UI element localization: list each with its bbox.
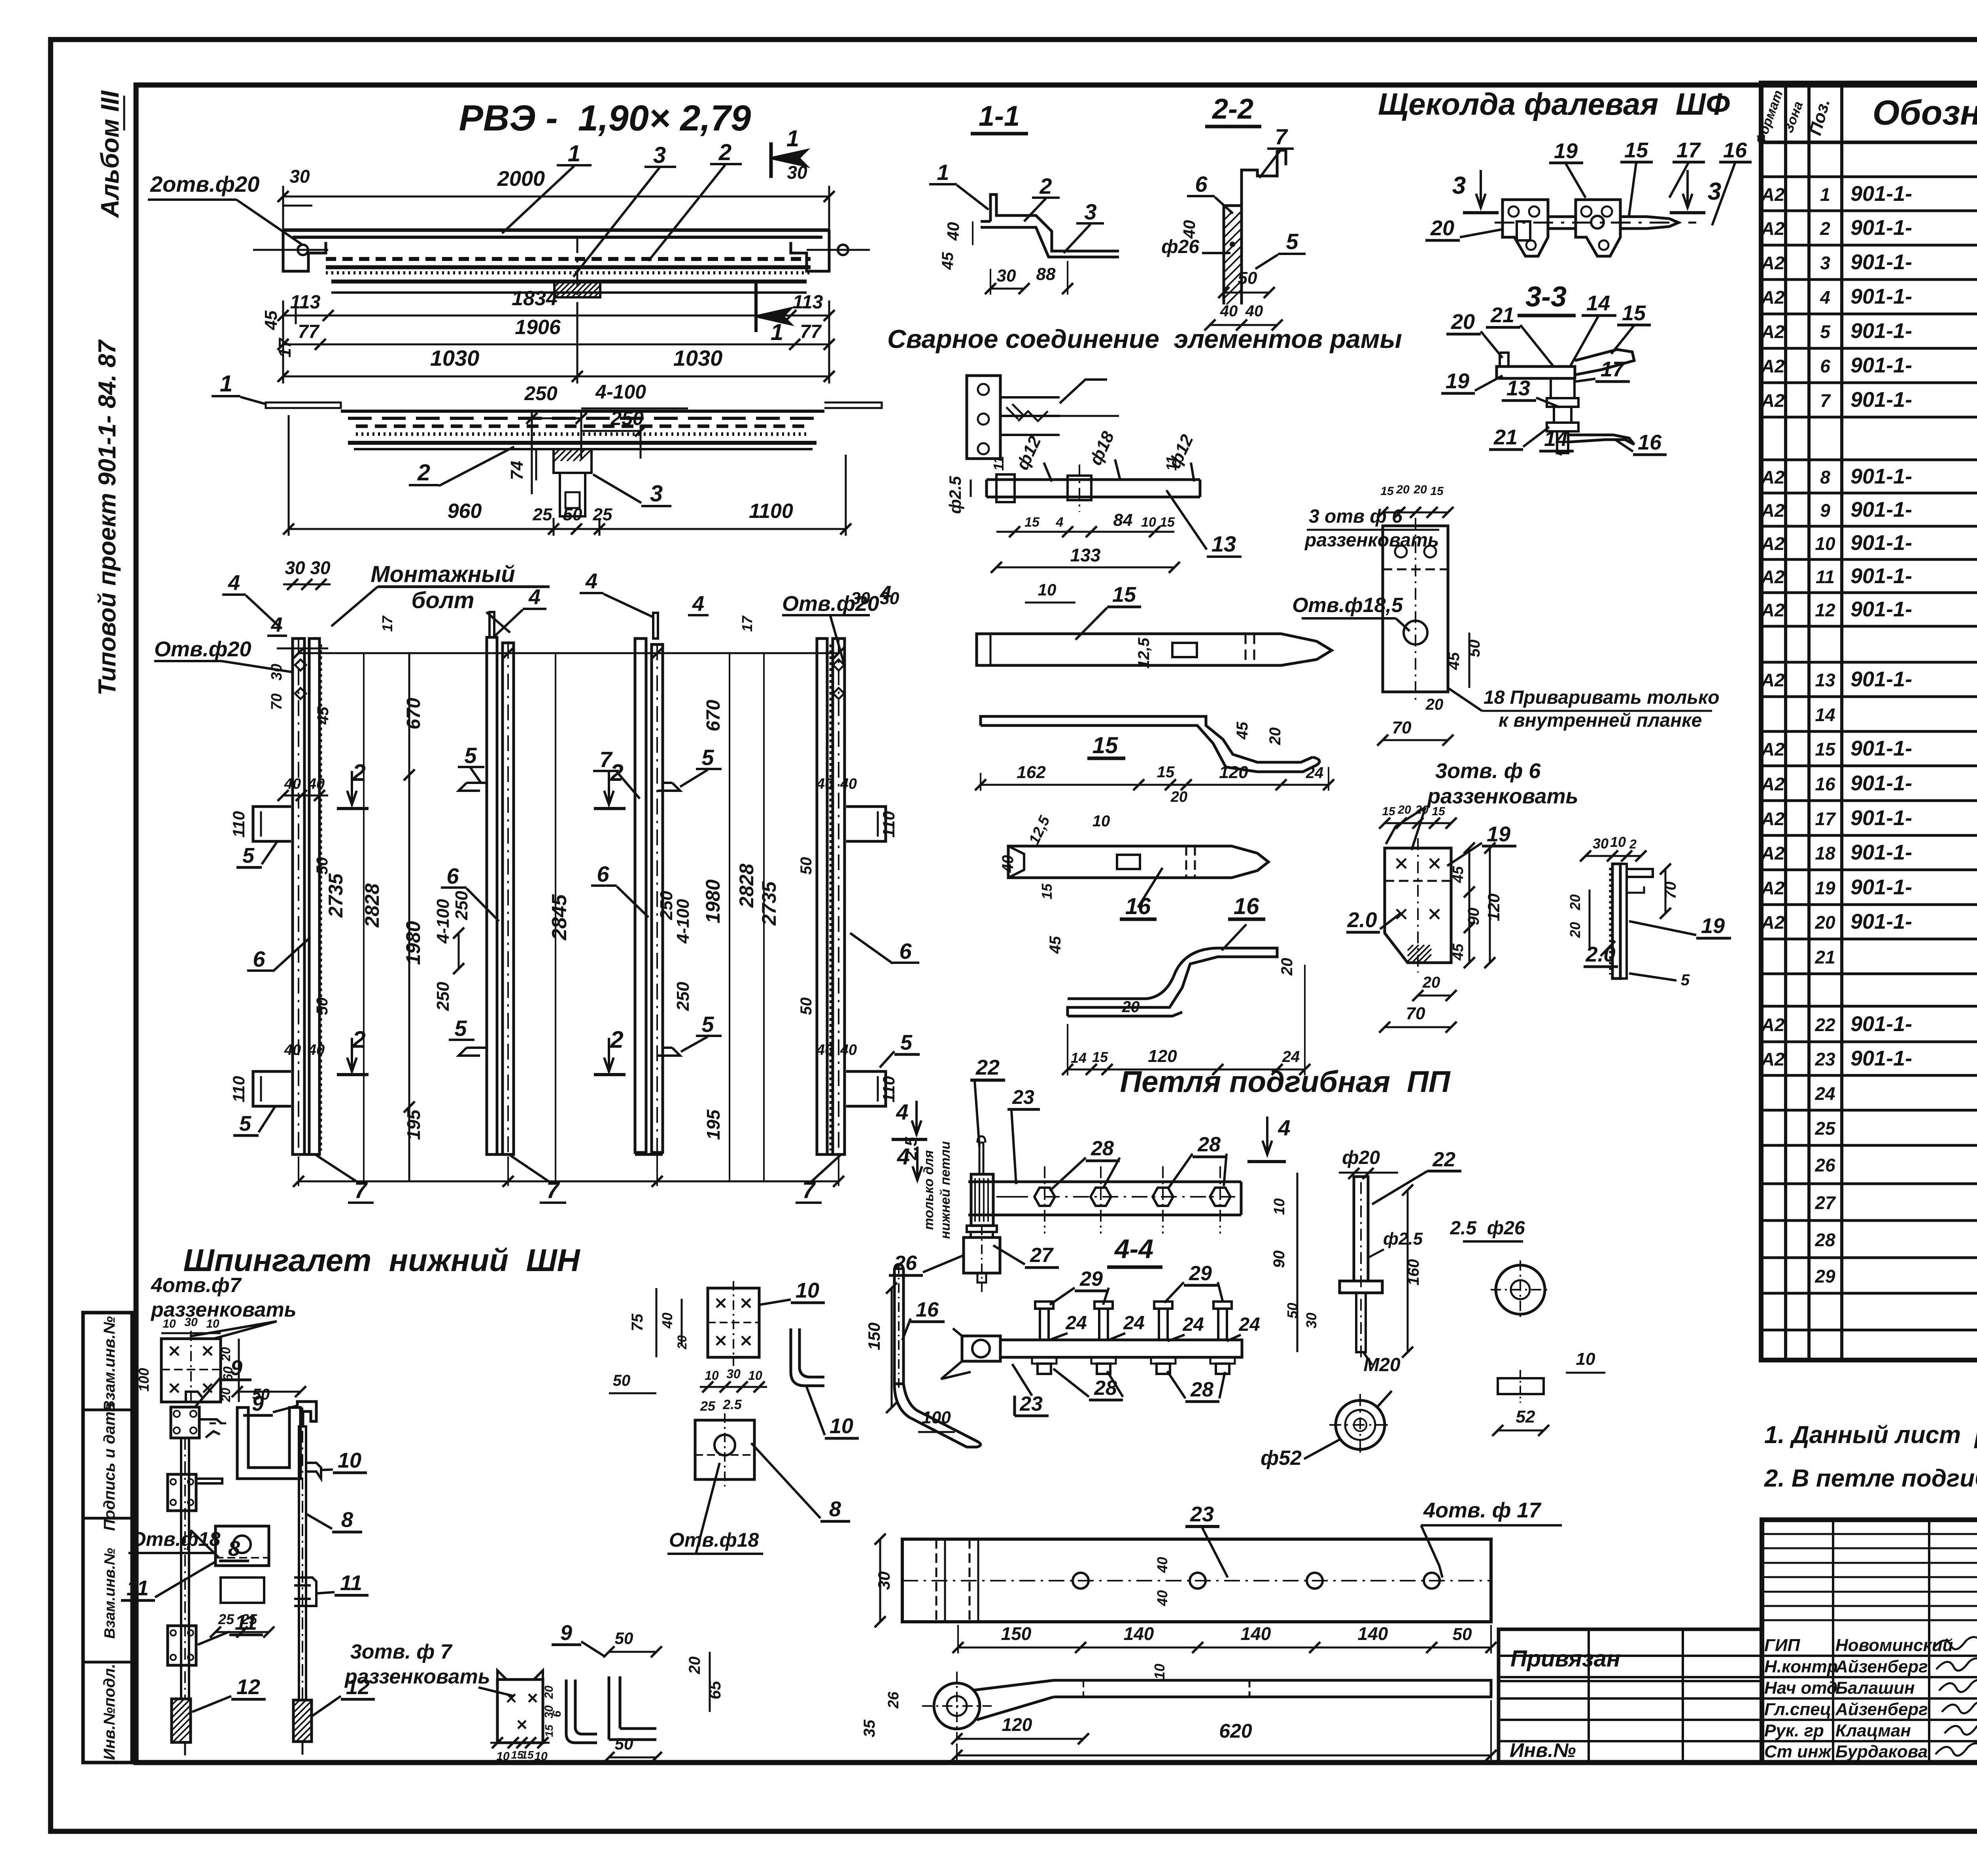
svg-text:25: 25	[241, 1611, 257, 1627]
svg-text:30 30: 30 30	[851, 589, 900, 608]
svg-text:45: 45	[939, 252, 956, 270]
svg-text:4отв.ф7: 4отв.ф7	[151, 1274, 242, 1297]
frame column D top diamonds	[833, 659, 844, 671]
svg-text:24: 24	[1238, 1314, 1260, 1335]
part 15 top view body	[977, 634, 1332, 665]
svg-text:А2: А2	[1761, 533, 1785, 554]
svg-text:1030: 1030	[430, 346, 480, 370]
svg-text:2-2: 2-2	[1212, 93, 1253, 125]
svg-text:40: 40	[999, 855, 1017, 873]
svg-text:1: 1	[568, 141, 580, 166]
latch slide bolt	[1548, 217, 1678, 229]
svg-text:28: 28	[1814, 1230, 1835, 1250]
svg-text:901-1-: 901-1-	[1850, 319, 1912, 343]
svg-text:16: 16	[1234, 894, 1259, 919]
svg-text:30: 30	[184, 1316, 198, 1329]
title block frame	[1762, 1520, 1977, 1763]
svg-text:10: 10	[1576, 1349, 1595, 1369]
plate 23 side view strip	[1054, 1680, 1491, 1697]
svg-text:25: 25	[218, 1611, 234, 1627]
svg-text:8: 8	[341, 1508, 353, 1532]
svg-text:75: 75	[629, 1313, 646, 1331]
svg-text:20: 20	[1430, 216, 1454, 240]
svg-text:ф2.5: ф2.5	[946, 476, 964, 514]
svg-text:20: 20	[1451, 310, 1475, 334]
svg-text:Отв.ф18: Отв.ф18	[669, 1529, 759, 1551]
svg-text:2.0: 2.0	[1347, 908, 1377, 932]
svg-text:5: 5	[701, 1012, 714, 1037]
beam view 2 right tail	[824, 402, 882, 408]
svg-text:20: 20	[1415, 803, 1429, 816]
plate 23 left end dashed lines	[936, 1539, 937, 1622]
svg-text:А2: А2	[1761, 500, 1785, 521]
svg-text:16: 16	[1638, 431, 1662, 454]
bolt 2	[1099, 1309, 1108, 1340]
svg-text:26: 26	[885, 1691, 902, 1709]
svg-text:29: 29	[1189, 1262, 1212, 1285]
washer side rect	[1498, 1378, 1544, 1394]
svg-text:4: 4	[585, 569, 597, 593]
frame right bracket upper	[846, 807, 886, 841]
svg-text:М20: М20	[1363, 1355, 1401, 1375]
svg-text:901-1-: 901-1-	[1850, 875, 1912, 899]
svg-text:28: 28	[1190, 1378, 1213, 1401]
weld detail leader arrow	[1060, 380, 1107, 403]
svg-text:6: 6	[253, 947, 265, 971]
svg-text:901-1-: 901-1-	[1850, 771, 1912, 795]
svg-text:24: 24	[1065, 1313, 1087, 1334]
svg-text:6: 6	[446, 863, 459, 888]
svg-text:15: 15	[543, 1725, 555, 1737]
svg-text:10: 10	[1092, 812, 1110, 830]
svg-text:5: 5	[1820, 321, 1831, 342]
beam view 1 left end plate	[283, 230, 326, 271]
part 19 hatched zone	[1408, 945, 1431, 963]
svg-text:1906: 1906	[515, 316, 561, 339]
svg-text:901-1-: 901-1-	[1850, 806, 1912, 830]
beam view 2 center bracket	[554, 449, 592, 473]
svg-text:4: 4	[880, 582, 892, 605]
svg-text:20: 20	[1278, 958, 1296, 976]
svg-text:15: 15	[1112, 583, 1136, 606]
beam view 1 top dim line 2000	[283, 196, 829, 198]
svg-text:Монтажный: Монтажный	[370, 561, 515, 587]
svg-text:7: 7	[802, 1177, 816, 1203]
part 16 dim chain 14 15 120 24	[1068, 1069, 1305, 1071]
svg-text:4-4: 4-4	[1114, 1234, 1153, 1264]
svg-text:20: 20	[219, 1388, 233, 1402]
rod assembly 1 middle plate	[168, 1474, 196, 1511]
svg-text:40: 40	[1245, 302, 1263, 320]
svg-text:А2: А2	[1761, 184, 1785, 205]
svg-text:3: 3	[1452, 172, 1466, 199]
svg-text:901-1-: 901-1-	[1850, 285, 1912, 308]
plate 11 with отв ф18	[215, 1526, 269, 1566]
frame column B bars	[487, 637, 497, 1154]
svg-text:5: 5	[242, 844, 255, 867]
svg-text:30: 30	[997, 266, 1016, 285]
svg-text:Отв.ф18: Отв.ф18	[130, 1528, 220, 1550]
svg-text:1030: 1030	[673, 346, 723, 370]
svg-text:ф26: ф26	[1161, 236, 1199, 257]
plate with circle отв18 right	[695, 1420, 754, 1479]
svg-text:10: 10	[1271, 1198, 1288, 1215]
svg-text:15: 15	[1092, 733, 1118, 758]
svg-text:50: 50	[252, 1386, 270, 1403]
svg-text:10: 10	[705, 1368, 719, 1383]
svg-text:28: 28	[1091, 1137, 1114, 1160]
svg-text:50: 50	[314, 857, 331, 875]
svg-text:5: 5	[239, 1112, 251, 1135]
svg-text:А2: А2	[1761, 567, 1785, 587]
svg-text:250: 250	[673, 982, 693, 1011]
svg-text:15: 15	[1622, 301, 1646, 325]
svg-text:4: 4	[1056, 515, 1064, 530]
frame column A right bar serrated	[309, 639, 319, 1154]
frame bottom ends	[293, 1153, 319, 1156]
svg-text:3: 3	[650, 481, 663, 506]
svg-text:620: 620	[1219, 1720, 1252, 1742]
svg-text:20: 20	[1397, 803, 1411, 816]
svg-text:30: 30	[726, 1367, 741, 1381]
svg-text:раззенковать: раззенковать	[1304, 530, 1439, 551]
svg-text:Н.контр: Н.контр	[1764, 1657, 1838, 1676]
svg-text:5: 5	[1286, 229, 1298, 254]
svg-text:901-1-: 901-1-	[1850, 353, 1912, 377]
svg-text:4: 4	[228, 571, 240, 595]
bolt 4	[1218, 1309, 1227, 1340]
svg-text:100: 100	[136, 1368, 152, 1392]
svg-text:113: 113	[290, 292, 321, 313]
svg-text:ГИП: ГИП	[1764, 1636, 1801, 1655]
svg-text:11: 11	[1816, 567, 1835, 587]
svg-text:100: 100	[922, 1408, 951, 1427]
svg-text:5: 5	[701, 745, 714, 770]
svg-text:140: 140	[1241, 1623, 1271, 1644]
svg-text:Взам.инв.№: Взам.инв.№	[101, 1316, 118, 1412]
svg-text:40: 40	[1154, 1557, 1170, 1573]
svg-text:17: 17	[1601, 357, 1625, 381]
svg-text:901-1-: 901-1-	[1850, 216, 1912, 240]
svg-text:7: 7	[1820, 390, 1831, 411]
beam view 1 right end plate	[791, 230, 829, 271]
svg-text:901-1-: 901-1-	[1850, 250, 1912, 274]
plate 9 with 3 holes	[497, 1680, 543, 1743]
svg-text:40: 40	[284, 1042, 301, 1058]
svg-text:2828: 2828	[735, 863, 758, 908]
svg-text:Рук. гр: Рук. гр	[1764, 1721, 1824, 1740]
svg-text:901-1-: 901-1-	[1850, 667, 1912, 691]
svg-text:120: 120	[1219, 763, 1248, 782]
bolt 3	[1159, 1309, 1168, 1340]
svg-text:6: 6	[1820, 356, 1830, 376]
hook part right	[791, 1328, 824, 1386]
svg-text:670: 670	[703, 700, 724, 731]
svg-text:23: 23	[1814, 1049, 1835, 1069]
svg-text:5: 5	[1681, 971, 1690, 989]
svg-text:110: 110	[229, 1076, 248, 1103]
svg-text:4: 4	[271, 614, 283, 637]
svg-text:901-1-: 901-1-	[1850, 465, 1912, 488]
svg-text:18: 18	[1815, 843, 1835, 863]
svg-text:20: 20	[1122, 998, 1140, 1016]
washer ф26 circles	[1496, 1265, 1545, 1314]
part 22 pin front	[979, 1143, 983, 1174]
svg-text:19: 19	[1701, 914, 1725, 938]
frame column D left bar	[817, 639, 827, 1154]
svg-text:960: 960	[448, 500, 482, 523]
svg-text:Нач отд: Нач отд	[1764, 1678, 1837, 1698]
svg-text:140: 140	[1124, 1623, 1154, 1644]
svg-text:Подпись и дата: Подпись и дата	[101, 1403, 118, 1531]
beam dim row 1030 1030	[283, 376, 829, 378]
svg-text:24: 24	[1182, 1314, 1204, 1335]
svg-text:901-1-: 901-1-	[1850, 841, 1912, 864]
plate 23 holes	[1073, 1573, 1089, 1589]
svg-text:27: 27	[1814, 1192, 1836, 1213]
svg-text:250: 250	[524, 382, 558, 404]
beam view 1 section mark 1 top	[769, 142, 773, 178]
hinge pin flange	[1340, 1281, 1382, 1293]
svg-text:4-100: 4-100	[595, 381, 646, 403]
svg-text:А2: А2	[1761, 774, 1785, 794]
frame column C mounting bolt pin	[653, 613, 658, 639]
frame column B mounting bolt pin	[490, 612, 494, 637]
svg-text:3отв. ф 6: 3отв. ф 6	[1435, 759, 1541, 783]
svg-text:65: 65	[705, 1681, 724, 1699]
frame column A top diamonds отв20	[295, 659, 306, 671]
svg-text:15: 15	[1432, 805, 1446, 818]
svg-text:3: 3	[1084, 199, 1096, 224]
svg-text:50: 50	[798, 857, 815, 875]
svg-text:901-1-: 901-1-	[1850, 1047, 1912, 1070]
rod assembly 1 rod	[181, 1438, 189, 1699]
beam view 1 center joint	[554, 281, 600, 297]
frame right bracket lower	[846, 1071, 886, 1106]
svg-text:1980: 1980	[402, 921, 424, 965]
svg-text:24: 24	[1814, 1083, 1835, 1104]
svg-text:Бурдакова: Бурдакова	[1835, 1742, 1928, 1761]
svg-text:30 30: 30 30	[285, 557, 331, 578]
svg-text:11: 11	[340, 1571, 362, 1595]
svg-text:Клацман: Клацман	[1835, 1721, 1911, 1740]
svg-text:24: 24	[1282, 1048, 1300, 1066]
svg-text:16: 16	[1723, 138, 1747, 162]
svg-text:А2: А2	[1761, 670, 1785, 690]
frame small angle bracket B upper	[459, 783, 487, 791]
svg-text:50: 50	[615, 1734, 633, 1753]
svg-text:10: 10	[1815, 533, 1835, 554]
frame left bracket lower	[253, 1071, 291, 1106]
svg-text:6: 6	[1195, 172, 1208, 196]
svg-text:Айзенберг: Айзенберг	[1835, 1700, 1928, 1719]
svg-text:ф52: ф52	[1261, 1447, 1302, 1470]
svg-text:11: 11	[127, 1576, 149, 1600]
svg-text:4: 4	[1820, 287, 1830, 308]
svg-text:77: 77	[298, 321, 320, 342]
svg-text:13: 13	[1212, 531, 1236, 556]
svg-text:901-1-: 901-1-	[1850, 737, 1912, 760]
plate 23 dims row 150 140 140 140 50	[958, 1647, 1491, 1649]
frame column A left bar	[293, 639, 304, 1154]
svg-text:3отв. ф 7: 3отв. ф 7	[350, 1640, 453, 1663]
svg-text:Обозначение: Обозначение	[1873, 93, 1977, 132]
svg-text:10: 10	[830, 1414, 853, 1438]
title block signature grid	[1762, 1533, 1977, 1535]
svg-text:11: 11	[1163, 456, 1179, 470]
svg-text:1: 1	[786, 126, 799, 151]
frame small angle bracket C upper	[658, 783, 680, 791]
section 2-2 profile	[1224, 150, 1286, 304]
bracket channel bottom right	[609, 1676, 656, 1740]
svg-text:10: 10	[1610, 834, 1626, 850]
svg-text:Ст инж: Ст инж	[1764, 1742, 1832, 1761]
svg-text:А2: А2	[1761, 878, 1785, 898]
svg-text:10: 10	[748, 1368, 762, 1383]
rod assembly 2 hook catch 10	[306, 1463, 321, 1479]
svg-text:29: 29	[1079, 1268, 1103, 1290]
svg-text:110: 110	[229, 811, 248, 838]
hinge pin circle side view	[934, 1683, 980, 1729]
svg-text:22: 22	[1814, 1015, 1835, 1035]
svg-text:45: 45	[1450, 866, 1467, 883]
svg-text:25: 25	[1814, 1118, 1836, 1139]
part 22 bracket with washers	[964, 1237, 1000, 1273]
svg-text:А2: А2	[1761, 843, 1785, 863]
section 1-1 profile	[981, 195, 1119, 257]
svg-text:24: 24	[1306, 764, 1324, 782]
svg-text:50: 50	[563, 505, 582, 524]
svg-text:25: 25	[533, 505, 552, 524]
section 3-3 bar	[1497, 367, 1575, 378]
svg-text:3: 3	[1708, 178, 1721, 205]
svg-text:26: 26	[1814, 1155, 1835, 1175]
svg-text:7: 7	[599, 747, 613, 772]
svg-text:10: 10	[496, 1750, 510, 1763]
svg-text:16: 16	[1815, 774, 1835, 794]
svg-text:6: 6	[550, 1710, 563, 1717]
svg-text:110: 110	[879, 1076, 898, 1103]
beam dim row 77 1906	[283, 344, 829, 346]
svg-text:901-1-: 901-1-	[1850, 1012, 1912, 1036]
svg-text:1834: 1834	[512, 287, 558, 310]
svg-text:Шпингалет нижний ШН: Шпингалет нижний ШН	[183, 1243, 581, 1278]
frame column D right bar serrated	[833, 639, 845, 1154]
svg-text:4: 4	[896, 1100, 908, 1124]
svg-text:40: 40	[840, 1042, 857, 1058]
svg-text:22: 22	[1432, 1148, 1455, 1171]
svg-text:Инв.№подл.: Инв.№подл.	[101, 1664, 118, 1760]
svg-text:А2: А2	[1761, 218, 1785, 239]
svg-text:27: 27	[1030, 1244, 1054, 1267]
svg-text:2отв.ф20: 2отв.ф20	[150, 172, 259, 196]
svg-text:1980: 1980	[702, 879, 724, 923]
svg-text:А2: А2	[1761, 356, 1785, 376]
svg-text:4: 4	[692, 592, 704, 616]
svg-text:4-100: 4-100	[673, 899, 693, 944]
channel 9 side view	[566, 1680, 597, 1743]
svg-text:17: 17	[379, 615, 395, 632]
svg-text:28: 28	[1197, 1133, 1221, 1156]
section 3-3 bolt stack	[1551, 378, 1574, 398]
svg-text:70: 70	[1406, 1004, 1425, 1023]
svg-text:45: 45	[314, 707, 332, 725]
svg-text:20: 20	[219, 1347, 233, 1362]
svg-text:8: 8	[829, 1497, 841, 1521]
svg-text:901-1-: 901-1-	[1850, 182, 1912, 206]
svg-text:1: 1	[1820, 184, 1830, 205]
hinge strap plan view	[968, 1182, 1241, 1215]
rod assembly 1 lower plate	[168, 1626, 196, 1665]
svg-text:70: 70	[268, 693, 285, 710]
svg-text:19: 19	[1815, 878, 1835, 898]
svg-text:А2: А2	[1761, 321, 1785, 342]
svg-text:10: 10	[1151, 1664, 1168, 1680]
svg-text:18 Приваривать только: 18 Приваривать только	[1484, 687, 1720, 708]
svg-text:Типовой проект 901-1- 84. 87: Типовой проект 901-1- 84. 87	[94, 339, 121, 695]
hinge strap hex nuts	[1034, 1188, 1055, 1206]
svg-text:1-1: 1-1	[979, 100, 1020, 132]
svg-text:10: 10	[206, 1317, 219, 1330]
svg-text:70: 70	[1392, 718, 1412, 737]
svg-text:19: 19	[1554, 139, 1578, 163]
svg-text:77: 77	[800, 321, 822, 342]
svg-text:6: 6	[899, 939, 912, 964]
svg-text:19: 19	[1446, 369, 1469, 393]
svg-text:23: 23	[1012, 1086, 1034, 1108]
frame small angle bracket B lower	[459, 1048, 487, 1056]
svg-text:45: 45	[1450, 943, 1467, 961]
frame column C bars	[635, 639, 646, 1152]
svg-text:20: 20	[1567, 922, 1583, 938]
part 17 plate	[1383, 526, 1448, 692]
svg-text:3-3: 3-3	[1525, 281, 1567, 313]
svg-text:15: 15	[1430, 485, 1444, 498]
beam view 2 left tail	[266, 402, 341, 408]
svg-text:40: 40	[944, 222, 962, 241]
svg-text:15: 15	[1024, 515, 1040, 530]
svg-text:30: 30	[289, 166, 310, 187]
svg-text:13: 13	[1815, 670, 1835, 690]
svg-text:120: 120	[1484, 894, 1503, 921]
svg-text:Щеколда фалевая ШФ: Щеколда фалевая ШФ	[1378, 87, 1730, 121]
svg-text:А2: А2	[1761, 1015, 1785, 1035]
svg-text:2: 2	[1820, 218, 1830, 239]
svg-text:140: 140	[1358, 1623, 1388, 1644]
svg-text:2: 2	[610, 1026, 623, 1053]
svg-text:20: 20	[1170, 789, 1187, 805]
svg-text:7: 7	[1275, 124, 1288, 149]
svg-text:13: 13	[1506, 376, 1530, 400]
svg-text:120: 120	[1148, 1047, 1177, 1066]
svg-text:10: 10	[163, 1317, 176, 1330]
монтажный болт underline and leader	[378, 586, 550, 588]
svg-text:15: 15	[1624, 138, 1648, 162]
svg-text:30: 30	[875, 1572, 893, 1590]
svg-text:17: 17	[1676, 138, 1701, 162]
svg-text:10: 10	[1141, 515, 1156, 530]
svg-text:12,5: 12,5	[1135, 637, 1153, 669]
beam view 1 lower chord	[331, 280, 807, 283]
svg-text:901-1-: 901-1-	[1850, 910, 1912, 933]
svg-text:3: 3	[1820, 253, 1830, 273]
svg-text:15: 15	[521, 1749, 534, 1761]
part 20 vertical bar	[1612, 864, 1620, 979]
svg-text:88: 88	[1036, 264, 1056, 284]
svg-text:5: 5	[454, 1016, 467, 1041]
part 15 dim chain 162 15 20 120 24	[981, 784, 1329, 786]
svg-text:2000: 2000	[497, 167, 545, 191]
